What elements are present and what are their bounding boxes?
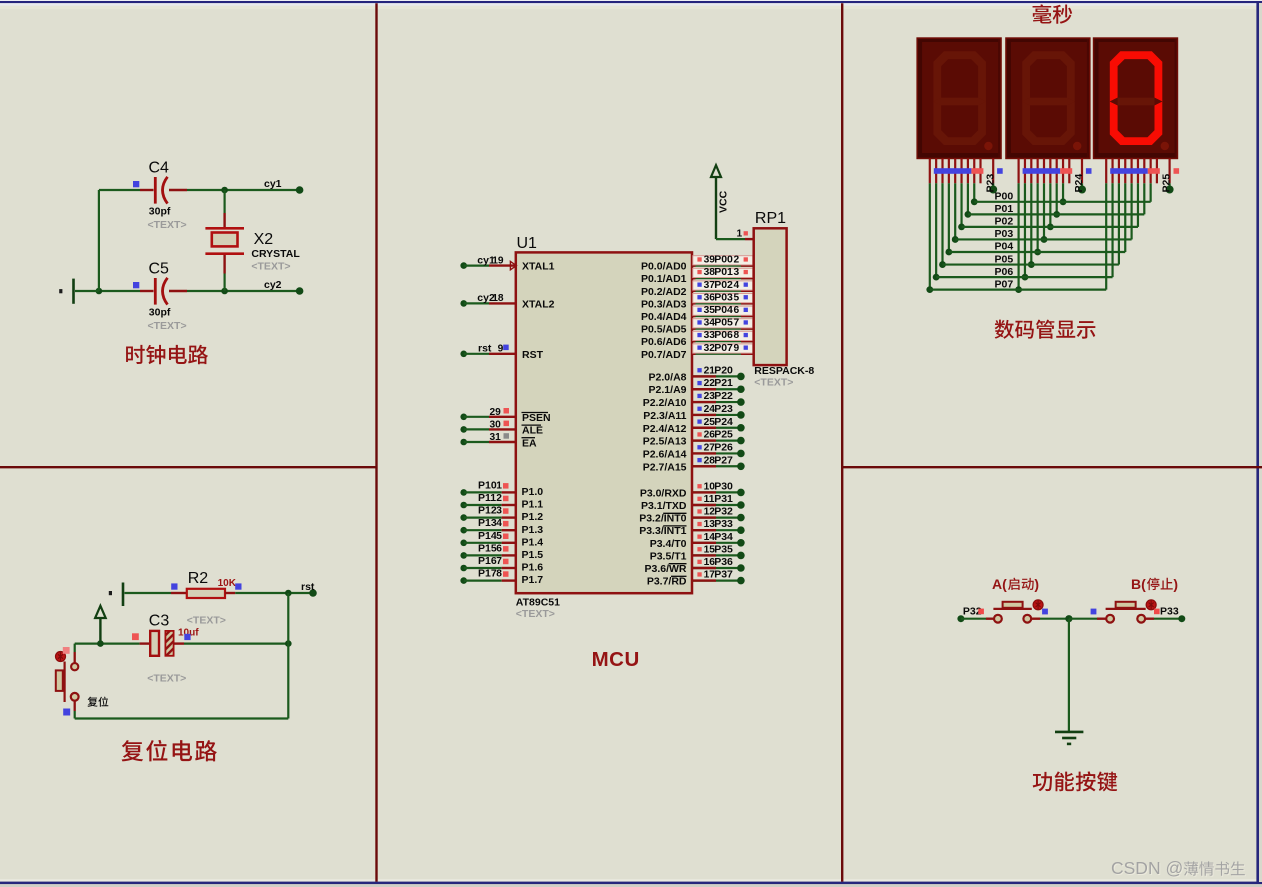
svg-text:P31: P31 — [714, 493, 733, 505]
svg-text:P2.6/A14: P2.6/A14 — [643, 448, 687, 460]
svg-text:RESPACK-8: RESPACK-8 — [754, 365, 814, 377]
svg-text:30pf: 30pf — [149, 205, 171, 217]
svg-text:2: 2 — [734, 255, 740, 266]
svg-text:P06: P06 — [995, 266, 1014, 278]
svg-text:B(: B( — [1131, 576, 1146, 592]
svg-text:P27: P27 — [714, 454, 733, 466]
svg-text:P1.5: P1.5 — [522, 549, 544, 561]
svg-text:P17: P17 — [478, 568, 497, 580]
svg-text:rst: rst — [478, 343, 492, 355]
svg-text:P2.4/A12: P2.4/A12 — [643, 423, 687, 435]
svg-text:P36: P36 — [714, 556, 733, 568]
svg-text:P2.1/A9: P2.1/A9 — [649, 384, 687, 396]
svg-text:5: 5 — [734, 292, 740, 303]
svg-text:31: 31 — [489, 432, 501, 443]
svg-text:3: 3 — [734, 267, 740, 278]
svg-text:P0.5/AD5: P0.5/AD5 — [641, 324, 687, 336]
svg-text:X2: X2 — [254, 231, 274, 248]
svg-text:P2.2/A10: P2.2/A10 — [643, 397, 687, 409]
svg-text:VCC: VCC — [718, 190, 730, 213]
svg-text:P23: P23 — [984, 174, 996, 193]
svg-text:P2.7/A15: P2.7/A15 — [643, 461, 687, 473]
svg-text:P0.1/AD1: P0.1/AD1 — [641, 273, 687, 285]
svg-text:5: 5 — [496, 531, 502, 542]
svg-text:30pf: 30pf — [149, 306, 171, 318]
svg-text:P0.4/AD4: P0.4/AD4 — [641, 311, 687, 323]
svg-text:P05: P05 — [995, 253, 1014, 265]
svg-text:1: 1 — [496, 480, 502, 491]
svg-text:CSDN @: CSDN @ — [1111, 858, 1183, 878]
svg-text:4: 4 — [496, 518, 502, 529]
svg-text:P33: P33 — [714, 518, 733, 530]
svg-text:P2.0/A8: P2.0/A8 — [649, 371, 687, 383]
svg-text:P0.6/AD6: P0.6/AD6 — [641, 336, 687, 348]
svg-text:P2.5/A13: P2.5/A13 — [643, 436, 687, 448]
svg-text:P13: P13 — [478, 517, 497, 529]
svg-text:cy2: cy2 — [264, 279, 282, 291]
svg-text:P01: P01 — [995, 203, 1014, 215]
svg-text:P25: P25 — [1161, 174, 1173, 193]
svg-text:P3.0/RXD: P3.0/RXD — [640, 487, 687, 499]
svg-text:P24: P24 — [714, 416, 733, 428]
svg-text:P12: P12 — [478, 505, 497, 517]
svg-text:P35: P35 — [714, 543, 733, 555]
svg-text:P3.4/T0: P3.4/T0 — [650, 538, 687, 550]
svg-text:4: 4 — [734, 280, 740, 291]
svg-text:rst: rst — [301, 581, 315, 593]
svg-text:): ) — [1173, 576, 1178, 592]
svg-text:P03: P03 — [714, 291, 733, 303]
svg-text:P16: P16 — [478, 555, 497, 567]
svg-text:CRYSTAL: CRYSTAL — [251, 248, 300, 260]
svg-text:P07: P07 — [714, 342, 733, 354]
svg-text:P05: P05 — [714, 317, 733, 329]
svg-text:<TEXT>: <TEXT> — [754, 377, 793, 389]
svg-text:7: 7 — [734, 318, 740, 329]
svg-text:P04: P04 — [714, 304, 733, 316]
svg-text:P1.7: P1.7 — [522, 574, 544, 586]
svg-text:P24: P24 — [1073, 174, 1085, 193]
svg-text:<TEXT>: <TEXT> — [147, 673, 186, 685]
svg-text:C3: C3 — [149, 613, 170, 630]
svg-text:P11: P11 — [478, 492, 496, 504]
svg-text:8: 8 — [734, 330, 740, 341]
svg-text:P1.1: P1.1 — [522, 499, 544, 511]
svg-text:P00: P00 — [995, 191, 1014, 203]
svg-text:7: 7 — [496, 556, 502, 567]
svg-text:P25: P25 — [714, 429, 733, 441]
svg-text:19: 19 — [492, 255, 504, 266]
svg-text:<TEXT>: <TEXT> — [187, 615, 226, 627]
svg-text:<TEXT>: <TEXT> — [148, 320, 187, 332]
svg-text:P00: P00 — [714, 254, 733, 266]
svg-text:P37: P37 — [714, 569, 733, 581]
svg-text:RST: RST — [522, 349, 544, 361]
svg-text:P03: P03 — [995, 228, 1014, 240]
svg-text:<TEXT>: <TEXT> — [251, 261, 290, 273]
svg-text:P34: P34 — [714, 531, 733, 543]
svg-text:11: 11 — [704, 494, 715, 505]
svg-text:P1.2: P1.2 — [522, 511, 544, 523]
svg-text:P10: P10 — [478, 479, 497, 491]
svg-text:ALE: ALE — [522, 425, 543, 437]
svg-text:30: 30 — [489, 420, 501, 431]
svg-text:P33: P33 — [1160, 606, 1179, 618]
svg-text:P1.4: P1.4 — [522, 536, 544, 548]
svg-text:P06: P06 — [714, 329, 733, 341]
svg-text:8: 8 — [496, 569, 502, 580]
svg-text:P04: P04 — [995, 241, 1014, 253]
svg-text:P1.6: P1.6 — [522, 562, 544, 574]
svg-text:P20: P20 — [714, 364, 733, 376]
svg-text:C4: C4 — [149, 160, 170, 177]
svg-text:<TEXT>: <TEXT> — [148, 219, 187, 231]
svg-text:P02: P02 — [714, 279, 733, 291]
svg-text:3: 3 — [496, 506, 502, 517]
svg-text:P0.7/AD7: P0.7/AD7 — [641, 349, 687, 361]
svg-text:C5: C5 — [149, 261, 170, 278]
svg-text:1: 1 — [737, 229, 743, 240]
svg-text:RP1: RP1 — [755, 210, 786, 227]
svg-text:6: 6 — [496, 543, 502, 554]
svg-text:9: 9 — [734, 343, 740, 354]
svg-text:18: 18 — [492, 293, 504, 304]
svg-text:XTAL2: XTAL2 — [522, 298, 555, 310]
svg-text:P23: P23 — [714, 403, 733, 415]
svg-text:U1: U1 — [517, 235, 538, 252]
svg-text:P2.3/A11: P2.3/A11 — [643, 410, 686, 422]
svg-text:2: 2 — [496, 493, 502, 504]
svg-text:P21: P21 — [714, 377, 733, 389]
svg-text:6: 6 — [734, 305, 740, 316]
svg-text:10K: 10K — [218, 578, 237, 589]
svg-text:29: 29 — [489, 407, 501, 418]
svg-text:AT89C51: AT89C51 — [516, 596, 560, 608]
svg-text:P0.3/AD3: P0.3/AD3 — [641, 298, 687, 310]
svg-text:P14: P14 — [478, 530, 497, 542]
svg-text:P3.7/RD: P3.7/RD — [647, 576, 687, 588]
svg-text:P0.2/AD2: P0.2/AD2 — [641, 286, 687, 298]
svg-text:): ) — [1034, 576, 1039, 592]
svg-text:P22: P22 — [714, 390, 733, 402]
svg-text:R2: R2 — [188, 570, 209, 587]
svg-text:P3.2/INT0: P3.2/INT0 — [639, 513, 686, 525]
svg-text:PSEN: PSEN — [522, 412, 551, 424]
svg-text:<TEXT>: <TEXT> — [516, 608, 555, 620]
svg-text:P3.3/INT1: P3.3/INT1 — [639, 525, 686, 537]
svg-text:XTAL1: XTAL1 — [522, 261, 555, 273]
svg-text:P1.3: P1.3 — [522, 524, 544, 536]
svg-text:P07: P07 — [995, 278, 1014, 290]
svg-text:P01: P01 — [714, 266, 733, 278]
svg-text:P32: P32 — [714, 506, 733, 518]
svg-text:P0.0/AD0: P0.0/AD0 — [641, 261, 687, 273]
svg-text:P3.1/TXD: P3.1/TXD — [641, 500, 687, 512]
svg-text:A(: A( — [992, 576, 1007, 592]
svg-text:P30: P30 — [714, 480, 733, 492]
svg-text:EA: EA — [522, 437, 537, 449]
svg-text:P15: P15 — [478, 542, 497, 554]
svg-text:MCU: MCU — [592, 648, 640, 671]
svg-text:P3.5/T1: P3.5/T1 — [650, 550, 687, 562]
svg-text:P02: P02 — [995, 216, 1014, 228]
svg-text:9: 9 — [498, 344, 504, 355]
svg-text:P26: P26 — [714, 441, 733, 453]
svg-text:P1.0: P1.0 — [522, 486, 544, 498]
svg-text:cy1: cy1 — [264, 178, 282, 190]
svg-text:P3.6/WR: P3.6/WR — [644, 563, 686, 575]
